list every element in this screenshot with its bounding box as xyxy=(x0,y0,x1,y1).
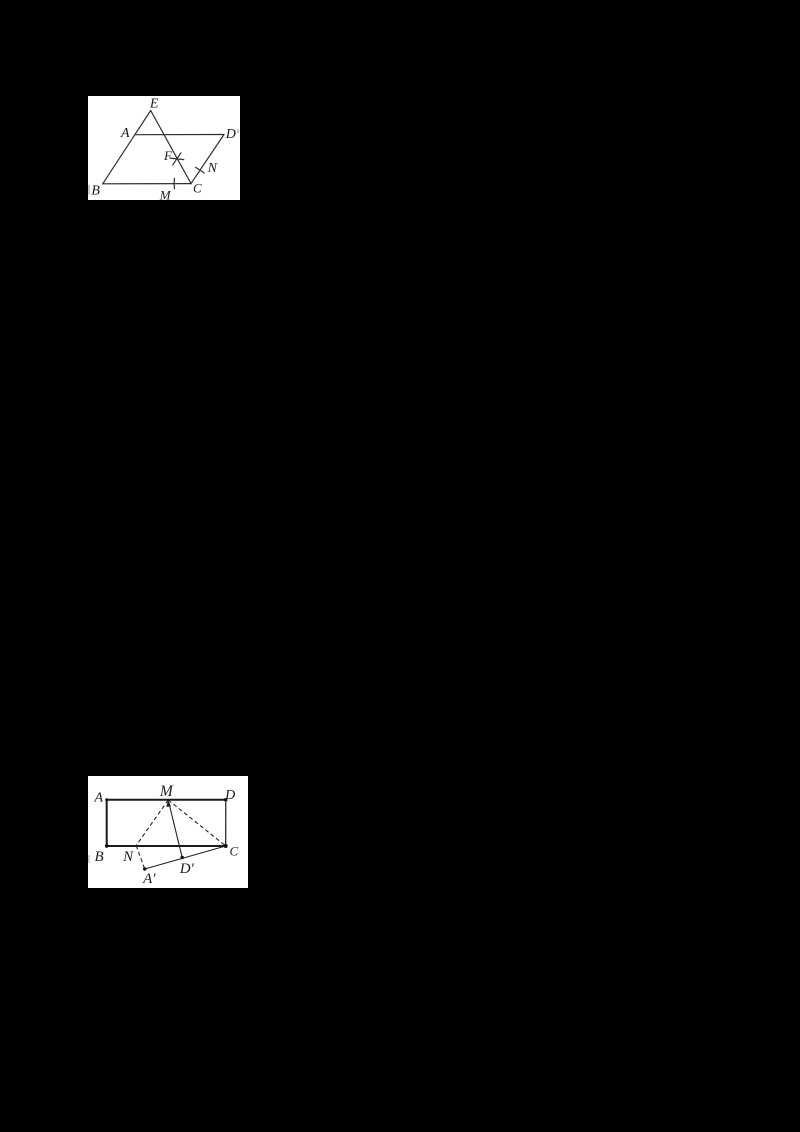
svg-text:A: A xyxy=(93,790,103,805)
svg-text:A′: A′ xyxy=(142,871,156,887)
dot at B xyxy=(105,844,109,848)
dashed wire M-N xyxy=(136,800,168,845)
figure 1: parallelogram ABCD with E, F, M, N xyxy=(88,96,240,201)
tick at M on BC xyxy=(173,178,175,188)
svg-text:C: C xyxy=(229,843,238,858)
figure 2: rectangle ABCD with fold M,N,A',D' xyxy=(88,776,248,888)
wire B-C xyxy=(103,182,191,184)
arrowhead at M xyxy=(166,800,171,807)
svg-text:D′: D′ xyxy=(178,861,194,877)
dot at corner A xyxy=(105,798,108,801)
gray mark at right edge near D xyxy=(237,129,239,132)
dashed wire N-A' xyxy=(136,845,144,868)
svg-text:B: B xyxy=(91,183,100,198)
gray mark at left edge xyxy=(88,855,90,863)
wire C-D xyxy=(191,134,224,183)
wire B-C (bottom) xyxy=(106,845,225,847)
rectangle A-D-C-B xyxy=(106,800,225,846)
wire E-C xyxy=(151,110,191,183)
svg-text:M: M xyxy=(159,783,174,800)
dashed wire M-C xyxy=(168,800,225,846)
wire A-D xyxy=(135,133,224,135)
svg-text:B: B xyxy=(94,849,103,865)
svg-text:N: N xyxy=(122,849,134,865)
wire D-C (right) xyxy=(224,800,226,846)
tick at F crossing EC xyxy=(173,152,181,164)
wire A'-C through D' xyxy=(144,846,225,869)
wire D'-M with arrow at M xyxy=(168,802,181,857)
wire A-B (left) xyxy=(105,800,107,846)
svg-text:N: N xyxy=(207,160,218,175)
dot at C xyxy=(223,844,227,848)
wire B-E (side BA extended to E) xyxy=(103,110,151,183)
tick dash at F (horizontal stroke) xyxy=(170,158,184,159)
dot at D' xyxy=(180,856,183,859)
svg-text:D: D xyxy=(225,127,236,142)
svg-text:E: E xyxy=(149,96,159,111)
svg-text:M: M xyxy=(159,187,172,200)
svg-text:F: F xyxy=(163,148,173,163)
dot at A' xyxy=(143,867,146,870)
svg-text:A: A xyxy=(120,126,130,141)
dot at D xyxy=(224,798,227,801)
svg-text:D: D xyxy=(224,788,235,803)
svg-text:C: C xyxy=(193,180,202,195)
wire A-D (top) xyxy=(106,799,225,801)
tick at N on CD xyxy=(195,167,204,173)
gray mark at left edge near B xyxy=(88,184,90,194)
